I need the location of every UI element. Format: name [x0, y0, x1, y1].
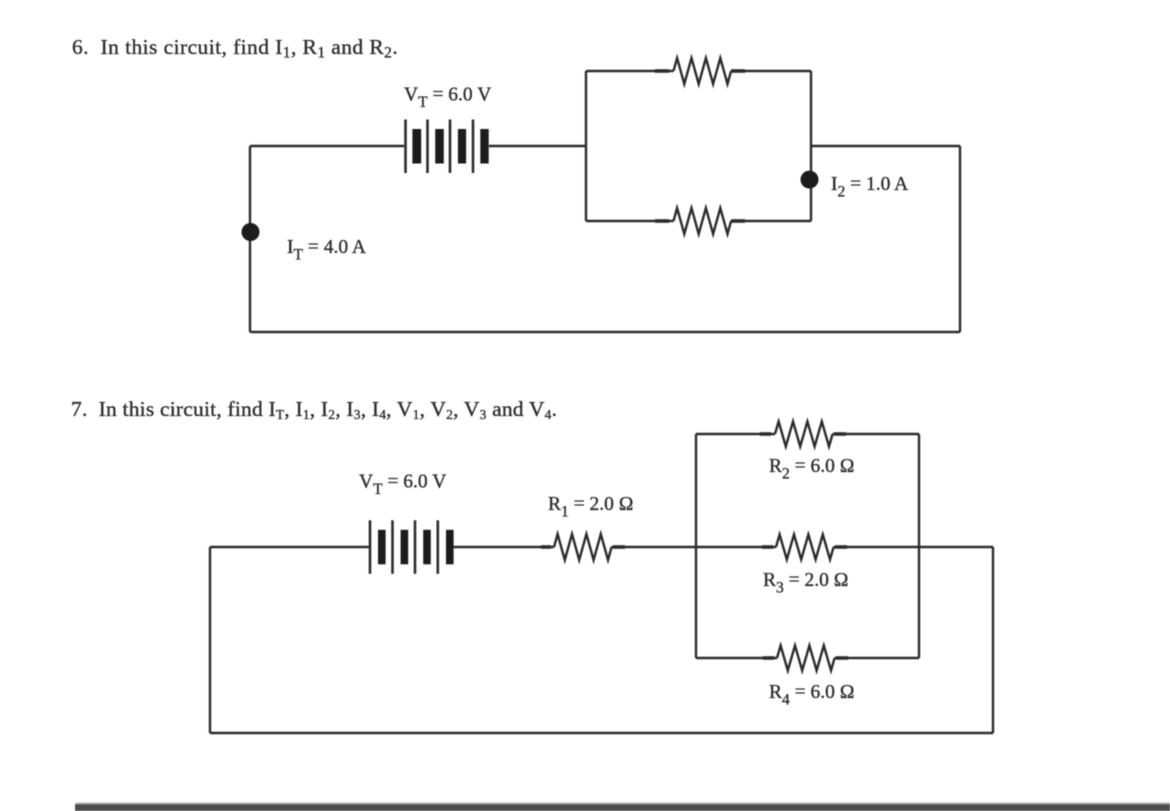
battery VT circuit6: short thick plate 3: [458, 129, 466, 164]
wire: circuit7 main left horizontal: [210, 546, 369, 548]
faint page scan line bottom: [78, 802, 1170, 805]
wire: outer left vertical (circuit 6): [249, 146, 251, 332]
resistor R1 stub right (circuit 6 top): [731, 69, 745, 73]
wire: top branch left lead (circuit 6): [586, 70, 674, 72]
resistor R1 zigzag (circuit 7): [554, 534, 612, 560]
battery VT circuit6: short thick plate 1: [412, 129, 421, 164]
wire: battery to R1 (circuit 7): [454, 546, 554, 548]
dark scan band at bottom page edge: [75, 805, 1170, 811]
wire: R1 to R3 (circuit 7 main): [612, 546, 776, 548]
battery VT circuit7: long plate 4: [436, 520, 439, 574]
resistor R1 zigzag (circuit 6 top branch): [674, 58, 732, 84]
svg-text:I2 = 1.0 A: I2 = 1.0 A: [831, 174, 908, 200]
resistor R1 stub right (circuit 7): [613, 545, 625, 549]
wire: top branch left lead R2 (circuit 7): [696, 433, 775, 435]
svg-text:R1 = 2.0 Ω: R1 = 2.0 Ω: [548, 494, 634, 520]
wire: parallel box left vertical (circuit 6): [585, 71, 587, 221]
wire: R3 to outer right edge (circuit 7 main): [834, 546, 993, 548]
node I2 junction dot (circuit 6): [801, 171, 819, 189]
wire: bottom branch left lead R4 (circuit 7): [696, 657, 777, 659]
resistor R2 zigzag (circuit 6 bottom branch): [674, 208, 732, 234]
wire: box to outer right edge (circuit 6): [811, 145, 960, 147]
wire: outer right vertical (circuit 7): [992, 547, 994, 733]
battery VT circuit7: long plate 2: [391, 520, 394, 574]
battery VT circuit6: long plate 1: [404, 120, 407, 174]
battery VT circuit7: short thick plate 1: [378, 530, 386, 565]
wire: circuit6 left top horizontal (node A to battery): [250, 145, 404, 147]
battery VT circuit7: long plate 1: [369, 520, 372, 574]
svg-text:6. In this circuit, find I1,: 6. In this circuit, find I1, R1 and R2.: [72, 35, 398, 62]
resistor R2 stub right: [834, 432, 846, 436]
battery VT circuit6: long plate 3: [449, 120, 452, 174]
resistor R2 stub left: [760, 432, 771, 436]
battery VT circuit6: long plate 4: [472, 120, 475, 174]
svg-text:IT = 4.0 A: IT = 4.0 A: [287, 237, 366, 263]
svg-text:7. In this circuit, find IT,: 7. In this circuit, find IT, I1, I2, I3,…: [71, 397, 557, 422]
wire: battery to parallel box (circuit 6): [489, 145, 586, 147]
resistor R4 stub left: [763, 656, 774, 660]
battery VT circuit6: short thick plate 2: [435, 129, 444, 164]
node IT junction dot (circuit 6): [242, 223, 260, 241]
resistor R4 zigzag (circuit 7 bottom branch): [777, 646, 835, 671]
battery VT circuit6: long plate 2: [426, 120, 429, 174]
battery VT circuit7: short thick plate 3: [423, 530, 431, 565]
resistor R3 stub left: [762, 545, 773, 549]
resistor R3 zigzag (circuit 7 middle branch): [776, 535, 834, 560]
wire: parallel box left vertical (circuit 7): [695, 434, 697, 658]
battery VT circuit7: long plate 3: [414, 520, 417, 574]
wire: outer bottom horizontal (circuit 7): [210, 732, 993, 734]
wire: bottom branch right lead R4 (circuit 7): [835, 657, 919, 659]
resistor R1 stub left (circuit 6 top): [655, 69, 669, 73]
wire: parallel box right vertical (circuit 7): [918, 434, 920, 658]
wire: bottom branch right lead (circuit 6): [731, 220, 811, 222]
wire: top branch right lead R2 (circuit 7): [833, 433, 919, 435]
svg-text:R4 = 6.0 Ω: R4 = 6.0 Ω: [769, 682, 855, 708]
battery VT circuit6: short thick plate 4: [480, 129, 488, 164]
wire: outer left vertical (circuit 7): [209, 547, 211, 733]
wire: parallel box right vertical (circuit 6): [810, 71, 812, 221]
svg-text:VT = 6.0 V: VT = 6.0 V: [404, 85, 491, 111]
battery VT circuit7: short thick plate 2: [401, 530, 409, 565]
resistor R3 stub right: [835, 545, 847, 549]
resistor R1 stub left (circuit 7): [541, 545, 551, 549]
svg-text:VT = 6.0 V: VT = 6.0 V: [359, 472, 446, 498]
resistor R4 stub right: [836, 656, 848, 660]
wire: outer bottom horizontal (circuit 6): [250, 331, 960, 333]
resistor R2 stub right (circuit 6 bottom): [731, 219, 745, 223]
resistor R2 stub left (circuit 6 bottom): [655, 219, 669, 223]
resistor R2 zigzag (circuit 7): [775, 422, 833, 447]
battery VT circuit7: short thick plate 4: [446, 530, 454, 565]
wire: top branch right lead (circuit 6): [731, 70, 811, 72]
wire: outer right vertical (circuit 6): [959, 146, 961, 332]
svg-text:R2 = 6.0 Ω: R2 = 6.0 Ω: [769, 456, 855, 482]
wire: bottom branch left lead (circuit 6): [586, 220, 674, 222]
svg-text:R3 = 2.0 Ω: R3 = 2.0 Ω: [763, 570, 849, 596]
